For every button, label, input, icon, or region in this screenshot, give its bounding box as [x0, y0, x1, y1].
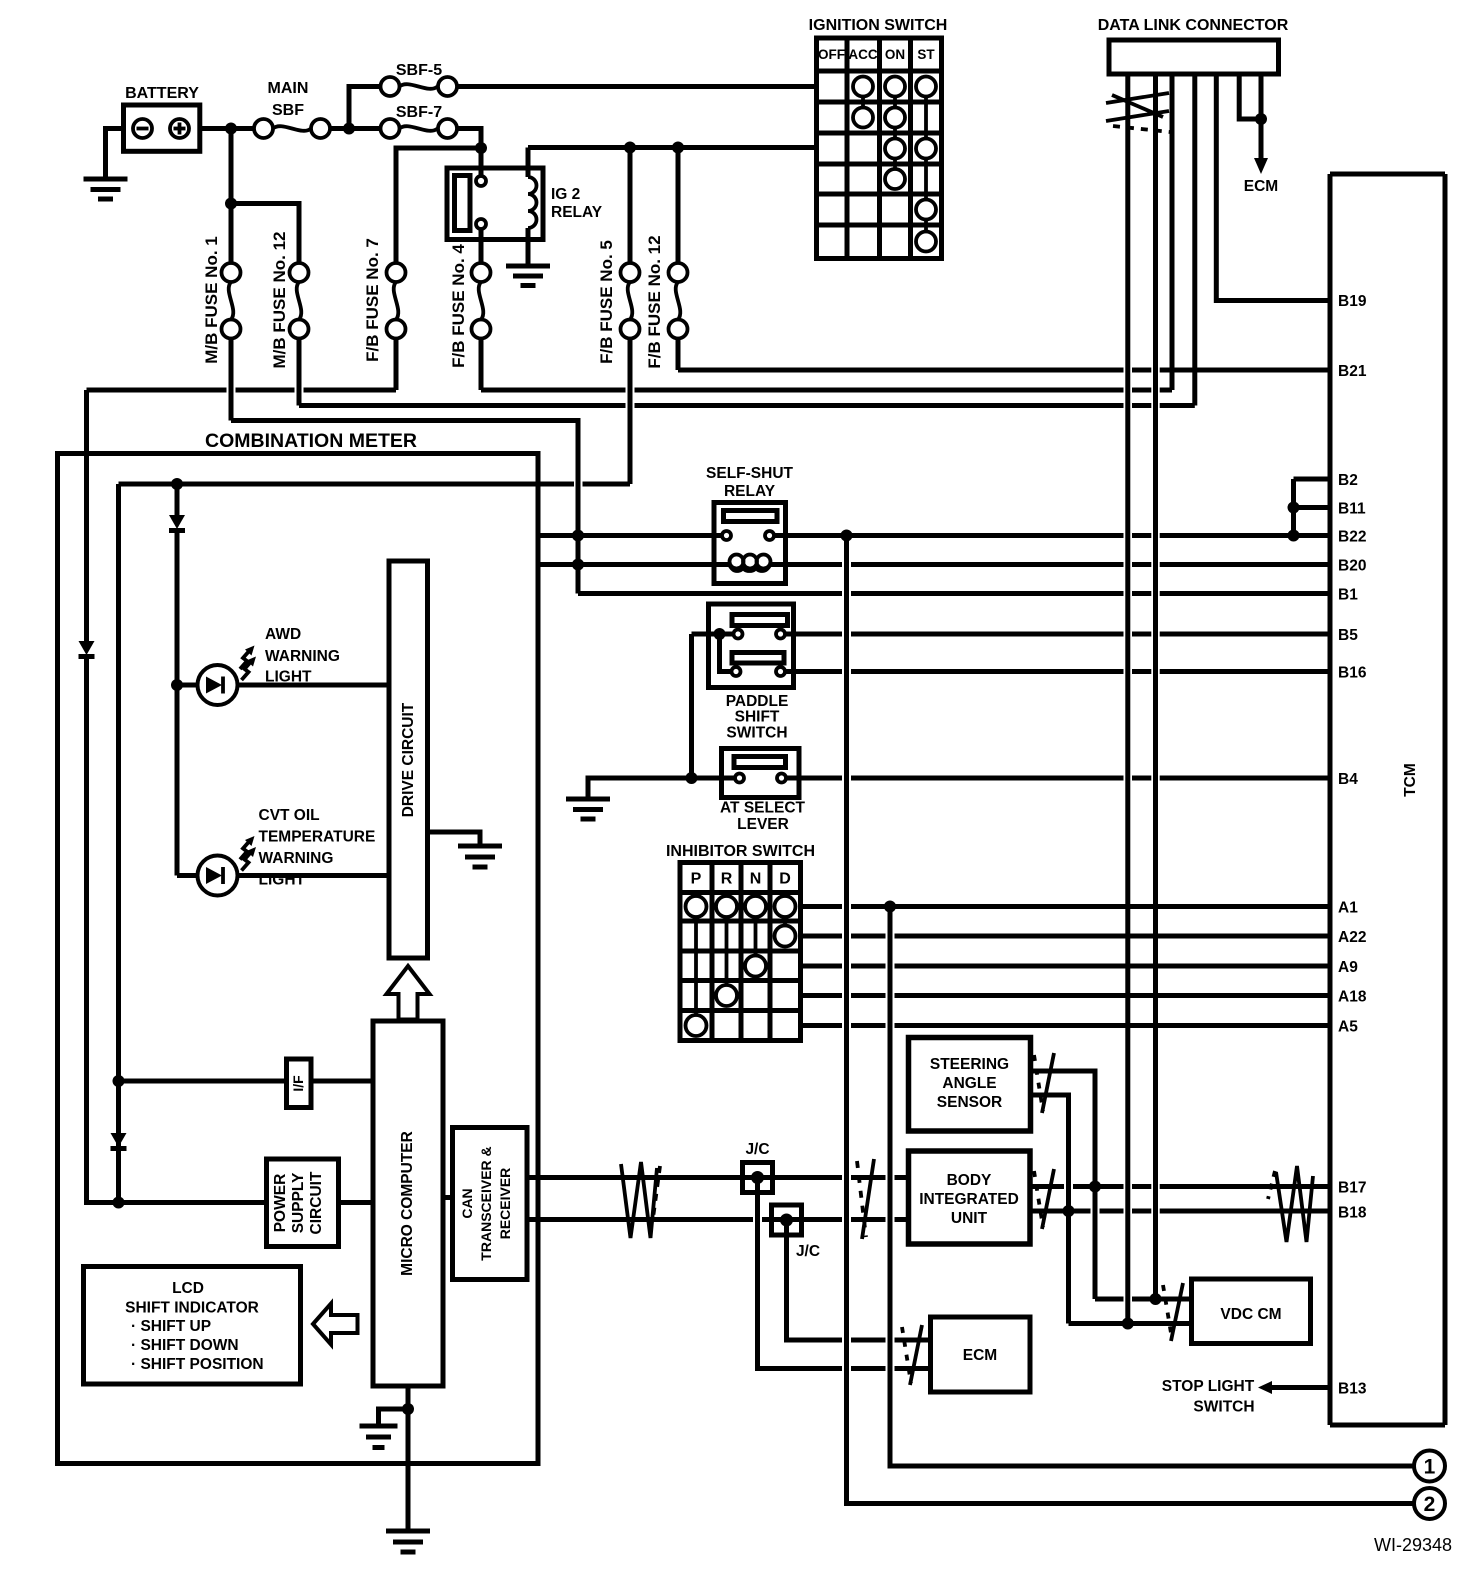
wire B22 net from combination meter through self-shut relay to TCM [538, 533, 1330, 538]
wire M/B fuse No.1 column from battery junction [229, 129, 234, 264]
switch INHIBITOR SWITCH table [666, 843, 815, 1041]
wire branch up to SBF-5 [349, 87, 381, 129]
wire B13 stop light switch [1271, 1385, 1330, 1390]
node AT select feed junction [686, 772, 698, 784]
terminal circled 2 [1414, 1488, 1445, 1519]
battery B1 [124, 85, 200, 151]
label CVT OIL TEMPERATURE WARNING LIGHT [259, 807, 376, 889]
svg-text:INTEGRATED: INTEGRATED [919, 1191, 1019, 1208]
ignition switch ON contacts [885, 77, 905, 190]
svg-text:SBF: SBF [272, 102, 304, 119]
interface I/F box [287, 1059, 312, 1108]
ground AT select lever [566, 799, 610, 819]
svg-text:DATA LINK CONNECTOR: DATA LINK CONNECTOR [1098, 17, 1289, 34]
wire warning light rail [175, 531, 180, 876]
node steering pin1 to B17 junction [1089, 1181, 1101, 1193]
node M/B branch junction [225, 198, 237, 210]
arrow LCD input [313, 1304, 358, 1345]
wire rail from F/B No.7 left to combination meter feeder [87, 388, 397, 393]
node warning light branch [171, 478, 183, 490]
relay IG 2 RELAY box [447, 168, 603, 240]
svg-text:WARNING: WARNING [259, 850, 334, 867]
svg-text:A9: A9 [1338, 959, 1358, 976]
svg-text:STOP LIGHT: STOP LIGHT [1162, 1378, 1255, 1395]
svg-text:· SHIFT POSITION: · SHIFT POSITION [131, 1356, 264, 1373]
svg-text:A5: A5 [1338, 1019, 1358, 1036]
connector symbol at CAN wires [857, 1159, 874, 1239]
wire I/F rail [119, 1079, 287, 1084]
svg-text:STEERING: STEERING [930, 1056, 1009, 1073]
svg-text:A1: A1 [1338, 900, 1358, 917]
svg-text:LCD: LCD [172, 1280, 204, 1297]
arrow B13 to stop light switch [1258, 1381, 1272, 1394]
module ECM box [931, 1317, 1031, 1392]
inhibitor P column contacts [686, 896, 707, 1036]
svg-text:· SHIFT DOWN: · SHIFT DOWN [131, 1337, 239, 1354]
svg-text:UNIT: UNIT [951, 1210, 988, 1227]
svg-text:PADDLE: PADDLE [726, 693, 789, 710]
micro computer box [373, 1021, 443, 1386]
ground IG2 relay [506, 266, 550, 286]
svg-text:SHIFT INDICATOR: SHIFT INDICATOR [125, 1300, 259, 1317]
module BODY INTEGRATED UNIT box [909, 1151, 1031, 1244]
wire meter feeder continues to power supply rail [87, 657, 267, 1203]
wire B11 stub [1294, 505, 1331, 510]
relay IG2 coil [528, 148, 537, 267]
svg-text:TCM: TCM [1402, 763, 1419, 797]
node B22 branch to inhibitor feed [841, 530, 853, 542]
connector symbol at ECM [902, 1325, 922, 1385]
wire B16 from paddle row2 to TCM [785, 669, 1330, 674]
wire micro computer to CAN transceiver [443, 1195, 453, 1200]
CAN transceiver and receiver box [453, 1128, 528, 1280]
LED CVT light rays [240, 836, 256, 871]
connector symbol at body integrated unit [1034, 1169, 1054, 1229]
node ground branch [402, 1403, 414, 1415]
svg-text:B22: B22 [1338, 529, 1366, 546]
wire VDC CM bottom lead [1069, 1321, 1192, 1326]
wire VDC CM top lead [1095, 1297, 1192, 1302]
LED AWD light rays [240, 646, 256, 681]
svg-text:ST: ST [917, 47, 935, 62]
wire DLC pin 2 [1153, 74, 1158, 1299]
fuse SBF-5 [381, 62, 458, 96]
label AWD WARNING LIGHT [265, 626, 340, 686]
svg-text:D: D [779, 871, 791, 888]
wire battery negative to ground [106, 129, 124, 180]
node A1 branch junction [884, 901, 896, 913]
svg-text:A22: A22 [1338, 929, 1366, 946]
svg-text:AWD: AWD [265, 626, 301, 643]
wire B1 from M/B No.1 feed to TCM [578, 591, 1330, 596]
wire B4 from AT select lever to TCM [786, 776, 1330, 781]
wire AT select lever to ground [588, 778, 735, 799]
wire branch to M/B fuse No.12 [231, 204, 299, 264]
svg-text:LEVER: LEVER [737, 816, 789, 833]
wire meter feeder from F/B No.7 rail [84, 390, 89, 641]
wire inner rail from F/B No.5 [119, 484, 631, 1203]
svg-text:INHIBITOR SWITCH: INHIBITOR SWITCH [666, 843, 815, 860]
wire steering angle sensor pin 1 [1031, 1071, 1096, 1299]
wire B20 net through self-shut coil to TCM [538, 562, 1330, 567]
wire J/C 1 down to ECM [758, 1178, 843, 1369]
arrow drive circuit input [387, 966, 430, 1020]
wire A22 from inhibitor row2 to TCM [801, 934, 1331, 939]
node battery junction [225, 123, 237, 135]
svg-text:B16: B16 [1338, 665, 1367, 682]
svg-text:F/B FUSE No. 5: F/B FUSE No. 5 [597, 240, 616, 364]
wire F/B No.5 feed down to fuse [628, 148, 633, 264]
wire B5 from paddle row1 to TCM [785, 632, 1330, 637]
connector symbol at VDC CM [1163, 1283, 1183, 1341]
svg-text:WARNING: WARNING [265, 648, 340, 665]
inhibitor N column contacts [745, 896, 766, 977]
fuse F/B FUSE No. 7 [363, 238, 406, 362]
ground battery [84, 179, 128, 199]
svg-text:LIGHT: LIGHT [265, 669, 312, 686]
svg-text:IGNITION SWITCH: IGNITION SWITCH [809, 17, 948, 34]
connector symbol at steering angle sensor [1034, 1053, 1054, 1113]
wire F/B No.4 below fuse to rail [479, 339, 484, 391]
wire F/B No.12 down to TCM B21 [676, 339, 681, 371]
node DLC pin1 to VDC junction [1122, 1318, 1134, 1330]
fuse MAIN SBF [254, 80, 330, 138]
svg-text:VDC CM: VDC CM [1220, 1306, 1281, 1323]
node B11 junction [1288, 502, 1300, 514]
node power supply junction [113, 1197, 125, 1209]
svg-text:TRANSCEIVER &: TRANSCEIVER & [478, 1146, 494, 1260]
fuse F/B FUSE No. 4 [449, 244, 491, 368]
svg-text:B5: B5 [1338, 627, 1358, 644]
svg-text:J/C: J/C [796, 1243, 820, 1260]
svg-text:SWITCH: SWITCH [1193, 1399, 1254, 1416]
wire rail from M/B No.12 to data link connector pin 4 riser [299, 403, 1195, 408]
node M/B No.1 to B22 junction [572, 530, 584, 542]
diode on meter feeder [79, 641, 95, 657]
wire F/B No.5 down to combination meter inner rail [628, 339, 633, 485]
svg-text:OFF: OFF [818, 47, 845, 62]
inhibitor R column contacts [716, 896, 737, 1006]
svg-text:F/B FUSE No. 7: F/B FUSE No. 7 [363, 238, 382, 362]
svg-text:SBF-5: SBF-5 [396, 62, 442, 79]
svg-text:F/B FUSE No. 4: F/B FUSE No. 4 [449, 244, 468, 368]
module VDC CM box [1192, 1279, 1311, 1344]
wire A5 from inhibitor row5 to TCM [801, 1023, 1331, 1028]
svg-text:M/B FUSE No. 1: M/B FUSE No. 1 [202, 236, 221, 364]
svg-text:B18: B18 [1338, 1205, 1367, 1222]
svg-text:B11: B11 [1338, 501, 1366, 518]
svg-text:B4: B4 [1338, 771, 1358, 788]
svg-text:B13: B13 [1338, 1381, 1367, 1398]
wire A1 branch vertical to circled 1 [890, 907, 1414, 1467]
wire micro computer ground [406, 1386, 411, 1531]
node steering pin2 to B18 junction [1063, 1205, 1075, 1217]
switch AT SELECT LEVER [720, 749, 805, 834]
svg-text:POWER: POWER [272, 1174, 289, 1233]
wire paddle switch left bracket [692, 634, 734, 672]
fuse M/B FUSE No. 12 [270, 232, 309, 369]
LED AWD warning light [177, 665, 389, 705]
svg-text:RELAY: RELAY [724, 483, 776, 500]
svg-text:ECM: ECM [1244, 178, 1278, 195]
svg-text:B20: B20 [1338, 558, 1366, 575]
svg-text:BODY: BODY [947, 1172, 992, 1189]
wire ECM bottom lead [851, 1366, 931, 1371]
combination meter box [58, 430, 539, 1464]
wire DLC pin 7 to ECM [1259, 74, 1264, 160]
wire M/B No.12 below fuse to rail [297, 339, 302, 406]
wire M/B No.1 below fuse to corner [229, 339, 234, 421]
ground branch symbol [360, 1426, 398, 1448]
svg-text:SWITCH: SWITCH [726, 725, 787, 742]
module STEERING ANGLE SENSOR box [909, 1038, 1031, 1132]
wire CAN high from transceiver to body integrated unit [527, 1175, 909, 1180]
wire DLC pin 4 riser [1192, 74, 1197, 406]
svg-text:BATTERY: BATTERY [125, 85, 199, 102]
svg-text:RELAY: RELAY [551, 204, 603, 221]
wire J/C 2 down to ECM [787, 1220, 843, 1340]
ignition switch ST contacts [916, 77, 936, 252]
wire rail from F/B No.4 to data link connector pin 3 riser [481, 388, 1172, 393]
svg-text:P: P [691, 871, 702, 888]
svg-text:ON: ON [885, 47, 905, 62]
svg-text:ANGLE: ANGLE [942, 1075, 996, 1092]
svg-text:SELF-SHUT: SELF-SHUT [706, 465, 794, 482]
wire ECM top lead [851, 1338, 931, 1343]
diode on warning light branch [169, 484, 185, 531]
svg-text:SENSOR: SENSOR [937, 1094, 1002, 1111]
node F/B No.5 feed [624, 142, 636, 154]
wire coil rail to ignition switch row 3 [528, 145, 817, 150]
twisted pair symbol CAN wires [621, 1162, 660, 1238]
svg-text:RECEIVER: RECEIVER [497, 1168, 513, 1240]
LED CVT oil temperature warning light [177, 856, 389, 896]
svg-text:COMBINATION METER: COMBINATION METER [205, 430, 417, 452]
node DLC ECM junction [1255, 113, 1267, 125]
svg-text:B2: B2 [1338, 472, 1358, 489]
svg-text:N: N [750, 871, 762, 888]
diode on inner rail [111, 1133, 127, 1149]
wire power supply to micro computer [339, 1200, 374, 1205]
svg-text:ACC: ACC [848, 47, 877, 62]
wire relay contact to F/B fuse No.4 [479, 229, 484, 264]
ground drive circuit [458, 846, 502, 867]
node F/B No.4 feed junction [475, 142, 487, 154]
wire DLC pin 6 [1239, 74, 1261, 119]
wire SBF-5 to ignition switch row 1 [457, 84, 817, 89]
svg-text:IG 2: IG 2 [551, 186, 580, 203]
terminal circled 1 [1414, 1451, 1445, 1482]
wire SBF-7 to F/B fuse No.4 column [457, 129, 481, 177]
twisted pair symbol B17 B18 wires [1268, 1166, 1313, 1242]
svg-text:2: 2 [1424, 1493, 1436, 1516]
wire inhibitor feed vertical to circled 2 [847, 536, 1415, 1504]
svg-text:ECM: ECM [963, 1347, 997, 1364]
ground main bottom symbol [386, 1531, 430, 1552]
svg-text:B17: B17 [1338, 1180, 1366, 1197]
svg-text:SBF-7: SBF-7 [396, 104, 442, 121]
svg-text:F/B FUSE No. 12: F/B FUSE No. 12 [645, 235, 664, 368]
node SBF junction [343, 123, 355, 135]
svg-text:A18: A18 [1338, 989, 1367, 1006]
twisted pair symbol DLC wires [1106, 93, 1170, 132]
wire I/F to micro computer [311, 1079, 373, 1084]
svg-text:B1: B1 [1338, 587, 1358, 604]
wire B17 from body integrated unit to TCM [1031, 1184, 1331, 1189]
svg-text:CIRCUIT: CIRCUIT [308, 1171, 325, 1234]
wire DLC pin 3 riser [1170, 74, 1175, 390]
junction J/C 2 [772, 1205, 821, 1260]
switch PADDLE SHIFT SWITCH [709, 604, 794, 742]
svg-text:LIGHT: LIGHT [259, 872, 306, 889]
drive circuit box [389, 561, 428, 958]
TCM box [1330, 174, 1445, 1425]
svg-text:· SHIFT UP: · SHIFT UP [131, 1318, 211, 1335]
wire ground branch [379, 1409, 409, 1426]
svg-text:TEMPERATURE: TEMPERATURE [259, 829, 376, 846]
arrow to ECM [1254, 158, 1268, 174]
wire B18 from body integrated unit to TCM [1031, 1209, 1331, 1214]
node AWD LED junction [171, 679, 183, 691]
node paddle bracket junction [714, 628, 726, 640]
svg-text:R: R [721, 871, 733, 888]
svg-text:DRIVE CIRCUIT: DRIVE CIRCUIT [400, 702, 417, 817]
fuse SBF-7 [381, 104, 458, 138]
svg-text:MAIN: MAIN [268, 80, 309, 97]
svg-text:M/B FUSE No. 12: M/B FUSE No. 12 [270, 232, 289, 369]
node M/B No.1 to B20 junction [572, 559, 584, 571]
power supply circuit box [267, 1159, 339, 1247]
svg-text:B19: B19 [1338, 293, 1367, 310]
inhibitor D column contacts [775, 896, 796, 947]
wire CAN low from transceiver to body integrated unit [527, 1217, 909, 1222]
junction J/C 1 [743, 1141, 773, 1193]
LCD shift indicator box [84, 1267, 301, 1385]
ignition switch ACC contacts [853, 77, 873, 128]
svg-text:B21: B21 [1338, 363, 1367, 380]
wire B21 from F/B No.12 to TCM [678, 368, 1330, 373]
wire DLC pin 1 [1125, 74, 1130, 1324]
wire F/B No.7 below fuse [394, 339, 399, 391]
wire paddle feed down to AT select lever [689, 634, 694, 778]
svg-text:I/F: I/F [290, 1075, 306, 1092]
svg-text:J/C: J/C [745, 1141, 769, 1158]
wire B2 stub and bracket [1294, 479, 1331, 536]
svg-text:SHIFT: SHIFT [735, 709, 780, 726]
relay self-shut coil [729, 555, 771, 572]
wire drive circuit to ground [428, 832, 481, 846]
label STOP LIGHT SWITCH [1162, 1378, 1255, 1416]
ignition switch table [809, 17, 948, 259]
wire branch to F/B fuse No.7 [396, 148, 481, 264]
svg-text:MICRO COMPUTER: MICRO COMPUTER [399, 1131, 416, 1276]
wire steering angle sensor pin 2 [1031, 1095, 1069, 1324]
svg-text:SUPPLY: SUPPLY [290, 1172, 307, 1233]
svg-text:CAN: CAN [459, 1188, 475, 1218]
fuse M/B FUSE No. 1 [202, 236, 241, 364]
wire MAIN SBF to SBF junction [330, 126, 381, 131]
wire DLC pin 5 to TCM B19 [1216, 74, 1330, 301]
fuse F/B FUSE No. 12 [645, 235, 688, 368]
data link connector box [1098, 17, 1289, 74]
wire A1 from inhibitor row1 to TCM [801, 904, 1331, 909]
fuse F/B FUSE No. 5 [597, 240, 640, 364]
node DLC pin2 to VDC junction [1150, 1293, 1162, 1305]
wire battery positive to MAIN SBF [200, 126, 254, 131]
node I/F branch [113, 1075, 125, 1087]
relay SELF-SHUT RELAY [706, 465, 794, 584]
svg-text:AT SELECT: AT SELECT [720, 800, 805, 817]
wire M/B No.1 horizontal run to self-shut feed [231, 421, 578, 594]
node B22 junction at bracket [1288, 530, 1300, 542]
node F/B No.12 feed [672, 142, 684, 154]
wire A18 from inhibitor row4 to TCM [801, 993, 1331, 998]
wire F/B No.12 feed down to fuse [676, 148, 681, 264]
svg-text:1: 1 [1424, 1456, 1436, 1479]
wire A9 from inhibitor row3 to TCM [801, 964, 1331, 969]
svg-text:WI-29348: WI-29348 [1374, 1535, 1452, 1555]
svg-text:CVT OIL: CVT OIL [259, 807, 320, 824]
